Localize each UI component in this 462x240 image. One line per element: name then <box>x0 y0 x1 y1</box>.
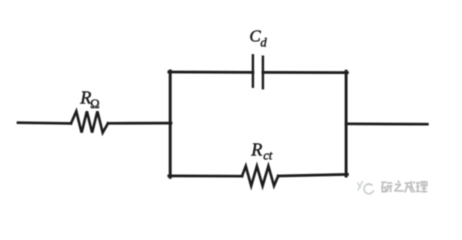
svg-text:Ω: Ω <box>90 97 99 111</box>
svg-text:ct: ct <box>263 148 273 162</box>
wire left lead <box>18 121 71 124</box>
wire top-right segment <box>263 71 348 74</box>
node B right junction rail (wire) <box>345 71 348 176</box>
capacitor C_d <box>253 55 263 88</box>
resistor R_ct <box>242 166 278 186</box>
svg-text:R: R <box>250 139 262 159</box>
node A left junction rail (wire) <box>169 71 172 177</box>
label C_d <box>249 27 267 50</box>
wire right lead <box>346 122 427 125</box>
wire R_Omega to node A <box>108 122 171 125</box>
label R_ct <box>250 139 273 162</box>
resistor R_Omega <box>71 111 108 132</box>
watermark logo <box>358 181 374 194</box>
wire bottom-right segment <box>278 174 347 176</box>
wire top-left segment <box>169 71 253 74</box>
wire bottom-left segment <box>169 175 242 178</box>
label R_Omega <box>79 88 99 111</box>
watermark text 研之成理 <box>381 181 427 193</box>
svg-text:d: d <box>260 36 267 50</box>
